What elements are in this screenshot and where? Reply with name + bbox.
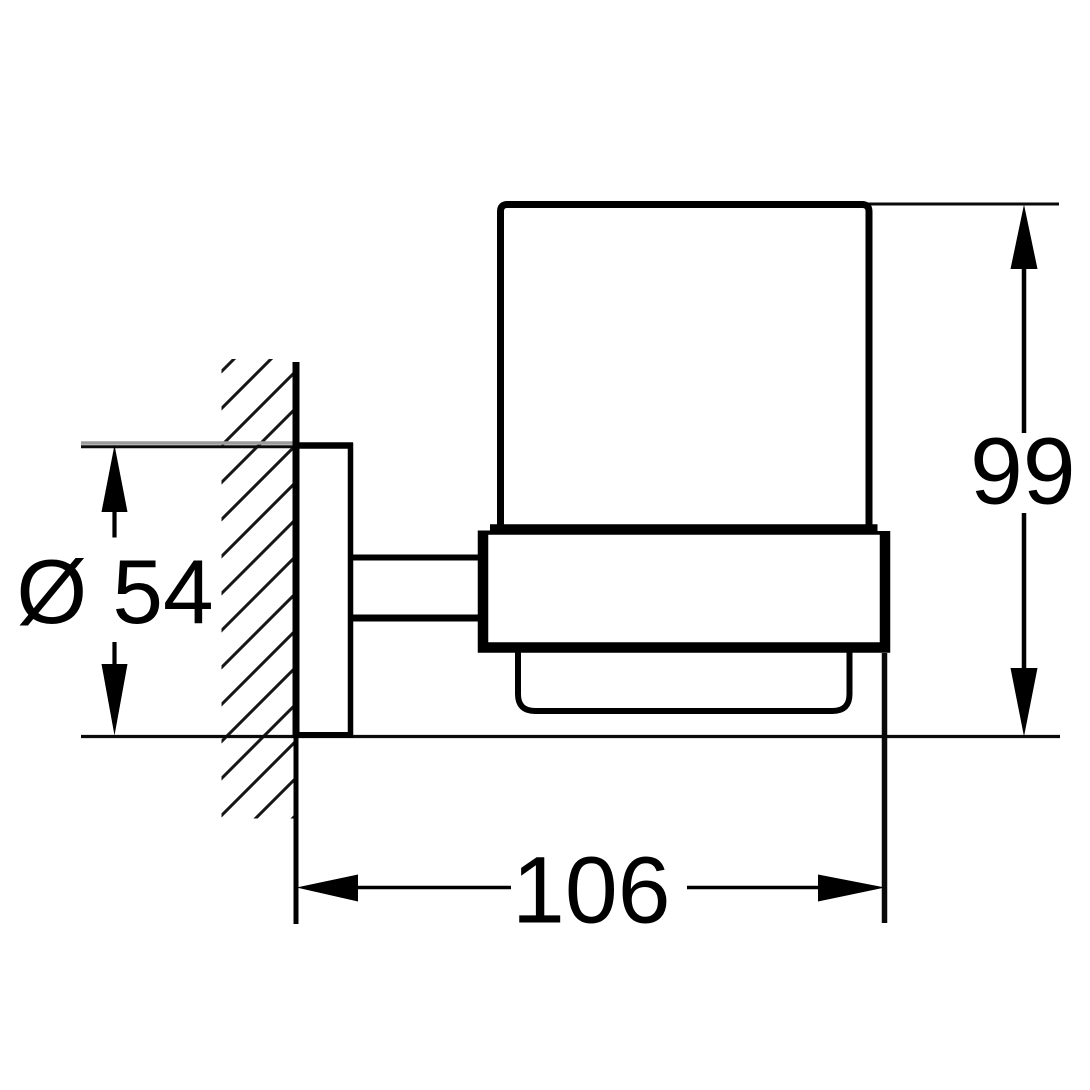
extension line top-right: [868, 203, 1059, 206]
svg-text:Ø 54: Ø 54: [16, 542, 213, 643]
wall line lower: [294, 737, 299, 924]
wall hatching: [219, 295, 298, 966]
dimension 99: upper stem: [1022, 268, 1027, 433]
holder body: [483, 530, 885, 648]
baseline extension bottom: [81, 735, 1060, 738]
arm bottom edge: [352, 615, 482, 622]
dimension Ø54: upper stem: [112, 511, 116, 538]
mounting plate right edge: [348, 443, 354, 737]
dimension 99: top arrow: [970, 205, 1076, 737]
dimension Ø54: lower stem: [112, 642, 116, 665]
dimension Ø54: top arrow: [16, 445, 213, 736]
extension line top-left (black part): [81, 445, 296, 448]
svg-text:99: 99: [970, 419, 1076, 525]
holder top-right corner notch: [878, 523, 892, 532]
glass cup: [501, 205, 870, 531]
arm top edge: [352, 555, 482, 561]
dimension 99: bottom arrow: [1011, 668, 1038, 737]
wall line upper: [293, 362, 300, 737]
svg-text:106: 106: [512, 838, 671, 944]
mounting plate top edge: [293, 442, 354, 449]
extension line right vertical (106 dim): [882, 653, 888, 923]
dimension 99: lower stem: [1022, 513, 1027, 669]
mounting plate bottom edge: [293, 732, 354, 738]
glass ring below holder: [518, 645, 850, 711]
dimension 106: left arrow: [297, 838, 886, 944]
holder top-left corner notch: [477, 523, 491, 531]
dimension 106: left line: [357, 886, 511, 890]
dimension 106: right line: [687, 886, 819, 890]
dimension 106: right arrow: [818, 875, 885, 902]
extension line top-left (gray part): [81, 441, 296, 445]
dimension Ø54: bottom arrow: [102, 664, 128, 736]
